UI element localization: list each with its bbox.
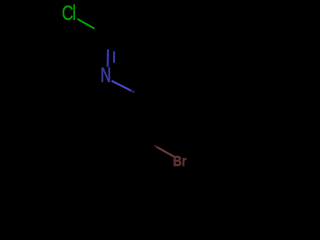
bond C6-Cl (chlorine half, green)	[77, 19, 94, 29]
atom label Cl (chlorine)	[62, 1, 75, 25]
svg-text:Cl: Cl	[62, 1, 75, 25]
double bond C6=N1, inner line (nitrogen half, blue)	[113, 51, 115, 62]
atom label Br (bromine)	[173, 153, 187, 169]
bond CH2-Br (bromine half, dark red)	[154, 145, 174, 156]
atom label N (ring nitrogen N1), drawn as strokes	[102, 67, 109, 82]
double bond C6=N1, main line (nitrogen half, blue)	[107, 49, 110, 67]
molecule depiction: 2-(bromomethyl)-6-chloropyridine on black background	[0, 0, 300, 176]
svg-text:Br: Br	[173, 153, 187, 169]
bond N1-C2 (nitrogen half, blue)	[112, 81, 135, 93]
